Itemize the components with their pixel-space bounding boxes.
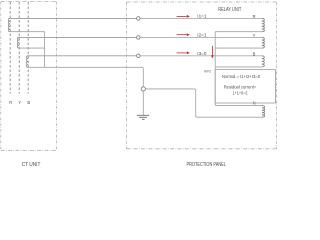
- wire: terminal 1 to relay R coil: [138, 17, 261, 19]
- relay coil B: [262, 56, 265, 67]
- wire: CT2 return lead: [19, 47, 44, 49]
- terminal 1 (circle): [137, 17, 141, 21]
- wire: star point to ground: [142, 91, 144, 115]
- svg-text:IN=2: IN=2: [204, 68, 212, 73]
- svg-text:PROTECTION PANEL: PROTECTION PANEL: [187, 162, 227, 168]
- svg-text:1+1+0=2: 1+1+0=2: [233, 91, 249, 96]
- red current arrow I2: [177, 33, 190, 36]
- phase conductor R (dashed): [9, 2, 11, 94]
- svg-text:CT UNIT: CT UNIT: [22, 162, 41, 168]
- phase conductor B (dashed): [27, 2, 29, 94]
- svg-text:B: B: [27, 100, 30, 105]
- wire: CT common return bus (vertical): [44, 32, 46, 68]
- CT coil CT1 (R phase): [8, 18, 10, 31]
- terminal 3 (circle): [137, 54, 141, 58]
- svg-text:RELAY UNIT: RELAY UNIT: [218, 7, 242, 13]
- wire: relay R return: [215, 31, 262, 33]
- wire: CT3 secondary lead to panel terminal 3 (line 3): [27, 55, 138, 57]
- phase conductor Y (dashed): [18, 2, 20, 94]
- svg-text:I3=0: I3=0: [197, 51, 207, 56]
- svg-text:I1=1: I1=1: [197, 13, 207, 18]
- svg-text:I2=1: I2=1: [197, 32, 207, 37]
- svg-text:Normal = I1+I2+I3=0: Normal = I1+I2+I3=0: [222, 74, 261, 79]
- red residual current arrow (down): [211, 46, 214, 59]
- CT unit enclosure (dashed box): [1, 2, 57, 151]
- wire: residual collector (vertical): [215, 32, 262, 106]
- ground symbol: [137, 115, 149, 119]
- svg-text:B: B: [253, 51, 256, 56]
- svg-text:Residual current=: Residual current=: [224, 85, 257, 90]
- wire: terminal 3 to relay B coil: [138, 55, 261, 57]
- wire: CT1 return lead: [10, 31, 44, 33]
- CT coil CT3 (B phase): [26, 56, 28, 68]
- red current arrow I1: [177, 15, 190, 18]
- CT coil CT2 (Y phase): [17, 37, 19, 48]
- relay text box: [215, 70, 275, 103]
- svg-text:R: R: [9, 100, 12, 105]
- star point terminal (circle): [141, 87, 145, 91]
- relay coil Y: [262, 37, 265, 48]
- wire: terminal 2 to relay Y coil: [138, 36, 261, 38]
- svg-text:Y: Y: [253, 33, 256, 38]
- svg-text:R: R: [253, 14, 256, 19]
- wire: neutral return from relay N to CT star point: [145, 89, 262, 117]
- wire: relay B return: [215, 66, 262, 68]
- wire: CT1 secondary lead to panel terminal 1 (line 1): [9, 17, 138, 19]
- terminal 2 (circle): [137, 36, 141, 40]
- relay coil R: [262, 18, 265, 31]
- relay coil N (earth fault element): [262, 106, 265, 118]
- svg-text:Y: Y: [18, 100, 21, 105]
- red current arrow I3: [177, 51, 190, 54]
- wire: CT3 return / common return to panel: [28, 67, 143, 86]
- wire: relay Y return: [215, 47, 262, 49]
- wire: CT2 secondary lead to panel terminal 2 (line 2): [18, 36, 138, 38]
- protection panel enclosure (dashed box): [127, 2, 277, 149]
